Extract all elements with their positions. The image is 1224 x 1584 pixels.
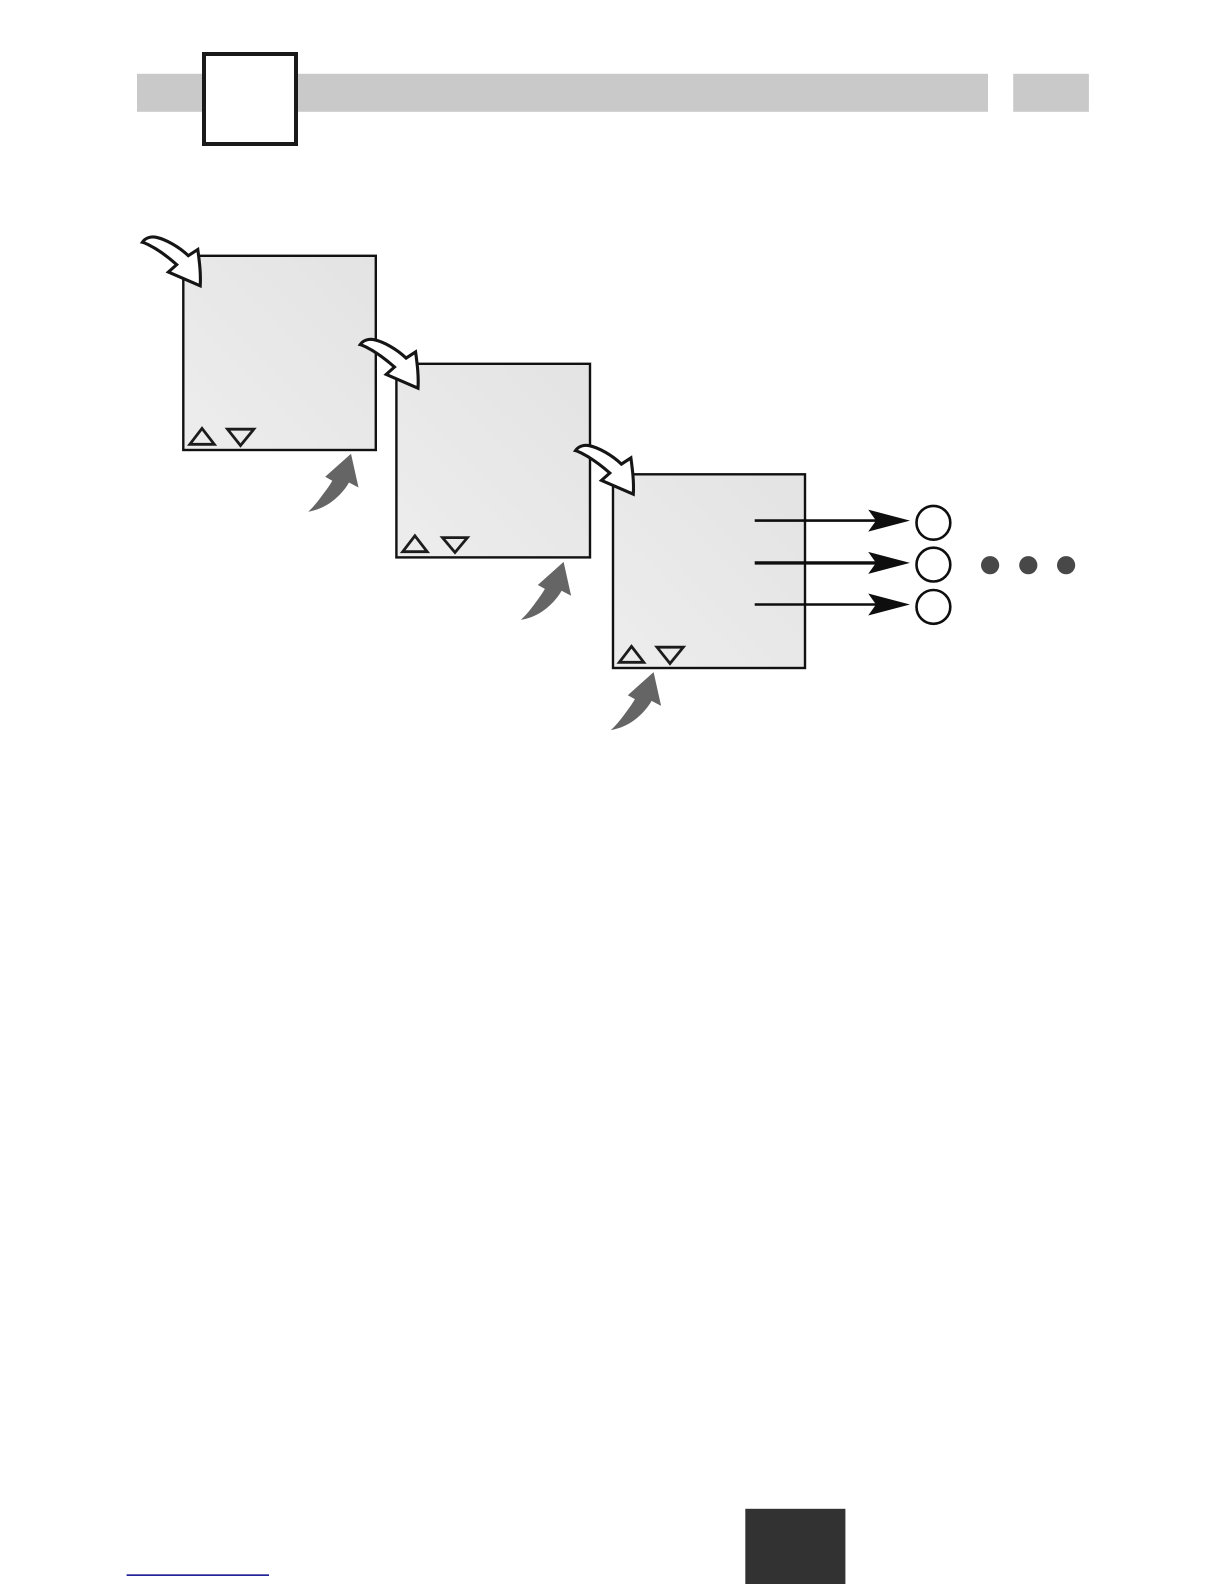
circle node 2 xyxy=(917,548,951,582)
footer blue rule xyxy=(127,1574,269,1576)
arrowhead 3 xyxy=(868,594,910,616)
gray curved arrow below box 1 xyxy=(308,454,358,512)
box 3 up triangle xyxy=(619,646,644,662)
gray curved arrow below box 3 xyxy=(611,672,661,730)
box 1 up triangle xyxy=(190,428,215,444)
screen box 3 xyxy=(613,474,805,668)
footer page-number block xyxy=(745,1509,845,1584)
box 2 up triangle xyxy=(403,536,428,552)
box 2 down triangle xyxy=(443,538,468,553)
ellipsis dot 2 xyxy=(1019,556,1037,574)
output line 3 xyxy=(755,603,878,606)
output line 1 xyxy=(755,519,878,522)
screen box 2 xyxy=(396,364,590,558)
screen box 1 xyxy=(183,256,375,450)
header bar left xyxy=(137,74,988,112)
box 3 down triangle xyxy=(657,647,683,663)
arrowhead 2 xyxy=(868,552,910,574)
white curved arrow into box 2 xyxy=(360,339,418,388)
output line 2 xyxy=(755,561,878,564)
box 1 down triangle xyxy=(228,429,254,445)
arrowhead 1 xyxy=(868,510,910,532)
header chapter number box xyxy=(204,54,296,144)
ellipsis dot 3 xyxy=(1057,556,1075,574)
ellipsis dot 1 xyxy=(981,556,999,574)
gray curved arrow below box 2 xyxy=(521,562,571,620)
white curved arrow into box 3 xyxy=(576,445,634,494)
circle node 3 xyxy=(917,590,951,624)
circle node 1 xyxy=(917,506,951,540)
white curved arrow into box 1 xyxy=(142,237,200,286)
header bar right xyxy=(1013,74,1089,112)
